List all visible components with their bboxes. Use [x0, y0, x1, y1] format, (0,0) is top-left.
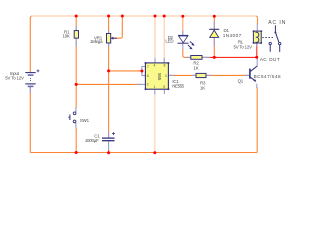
wire SW1 bottom lead	[75, 123, 77, 129]
wire R2 left lead	[187, 56, 192, 58]
wire top-left corner	[30, 16, 32, 18]
wire R3 to Q1 base	[206, 74, 249, 76]
wire right border emitter to bottom	[256, 87, 258, 152]
wire R2 right lead	[202, 56, 210, 58]
wire pin4 column	[154, 16, 156, 63]
pin numbers	[147, 64, 167, 90]
wire battery bottom lead lavender	[29, 87, 31, 93]
junction relay collector node	[255, 56, 258, 59]
wire D1 bottom lead	[213, 38, 215, 47]
wire pin5 stub	[163, 89, 165, 94]
wire R3 left lead	[192, 74, 196, 76]
wire top rail	[32, 15, 256, 17]
wire C1 top lead	[108, 133, 110, 138]
wire pin6 horizontal from VR1 junction	[109, 70, 142, 72]
junction R1 SW1 pin2 node	[75, 83, 78, 86]
wire Q1 emitter lead	[256, 84, 258, 88]
wire Q1 collector lead	[256, 57, 258, 66]
junction pin1 ground	[153, 151, 156, 154]
wire C1 bottom lead	[108, 141, 110, 151]
wire relay coil bottom to junction	[256, 43, 258, 57]
wire LED top lead	[182, 31, 184, 36]
svg-text:LED: LED	[165, 39, 173, 44]
junction LED rail	[181, 15, 184, 18]
junction VR1 wiper rail	[121, 15, 124, 18]
potentiometer VR1	[107, 34, 111, 44]
svg-text:SW1: SW1	[80, 118, 90, 123]
svg-text:1K: 1K	[194, 66, 199, 71]
svg-text:AC IN: AC IN	[268, 20, 286, 26]
wire VR1 bottom lead	[108, 43, 110, 47]
wire Q1 base lead	[245, 74, 250, 76]
junction VR1 bottom node	[107, 69, 110, 72]
wire pin8 column	[163, 16, 165, 63]
wire SW1 column	[75, 84, 77, 108]
LED D2	[178, 35, 194, 48]
wire VR1 top lead	[108, 30, 110, 34]
wire relay coil top lead	[256, 24, 258, 31]
wire relay coil bottom lead	[256, 43, 258, 47]
svg-text:1N4007: 1N4007	[223, 33, 242, 38]
capacitor C1	[102, 132, 115, 141]
wire pin1 stub	[154, 89, 156, 95]
wire top-right corner into relay	[256, 16, 258, 25]
battery B1	[25, 70, 39, 87]
svg-text:10K: 10K	[62, 34, 69, 39]
wire LED column	[182, 16, 184, 35]
wire SW1 top lead	[75, 108, 77, 113]
wire D1 top lead	[213, 21, 215, 29]
svg-text:1K: 1K	[200, 85, 205, 90]
wire pin1 ground column	[154, 94, 156, 153]
switch SW1	[68, 112, 76, 123]
wire pin6/7 link	[142, 67, 146, 76]
diode D1	[209, 28, 219, 30]
svg-text:1000µF: 1000µF	[85, 138, 99, 143]
wire R1 bottom lead	[75, 38, 77, 47]
junction VR1 top rail	[107, 15, 110, 18]
wire LED bottom lead	[182, 43, 184, 50]
wire D1 column	[213, 16, 215, 57]
wire R1 top lead	[75, 26, 77, 31]
relay RL coil	[253, 31, 261, 43]
junction D1 rail	[213, 15, 216, 18]
svg-text:AC OUT: AC OUT	[260, 57, 280, 63]
resistor R1	[74, 31, 78, 38]
IC U1 IC1 NE555 timer	[145, 63, 168, 89]
wire R2 right to junction	[202, 56, 257, 58]
junction D1 bottom node	[213, 56, 216, 59]
junction pin4 rail	[154, 15, 157, 18]
svg-text:555: 555	[157, 73, 162, 81]
wire pin2 horizontal	[76, 83, 142, 85]
wire battery to bottom rail	[29, 87, 31, 153]
wire R1 column	[75, 16, 77, 84]
wire bottom rail	[30, 152, 257, 154]
wire VR1 column	[108, 16, 110, 138]
wire pin4 stub	[154, 58, 156, 63]
junction SW1 ground	[75, 151, 78, 154]
wire pin2 stub	[137, 83, 145, 85]
junction pin6 pin7 node	[140, 70, 143, 73]
wire left border	[29, 17, 31, 72]
relay contact	[262, 25, 281, 52]
junction C1 ground	[107, 151, 110, 154]
wire LED bottom to R2	[183, 50, 191, 58]
svg-text:BC547/548: BC547/548	[254, 74, 282, 79]
transistor Q1	[250, 66, 257, 81]
wire VR1 wiper to rail	[112, 16, 123, 38]
svg-text:5V To 12V: 5V To 12V	[5, 76, 24, 81]
wire pin8 stub	[163, 58, 165, 63]
svg-text:Q1: Q1	[238, 79, 244, 84]
resistor R2	[191, 56, 202, 60]
resistor R3	[196, 73, 206, 77]
wire R3 right lead	[206, 74, 211, 76]
junction pin8 rail	[163, 15, 166, 18]
svg-text:NE555: NE555	[172, 84, 184, 89]
wire pin3 stub	[168, 74, 173, 76]
wire pin3 to R3	[168, 74, 196, 76]
junction R1 top rail	[75, 15, 78, 18]
coil glyph	[255, 32, 258, 42]
wire C1 to bottom rail	[108, 150, 110, 153]
svg-text:5V To 12V: 5V To 12V	[234, 45, 253, 50]
svg-text:1Mega: 1Mega	[90, 39, 103, 44]
